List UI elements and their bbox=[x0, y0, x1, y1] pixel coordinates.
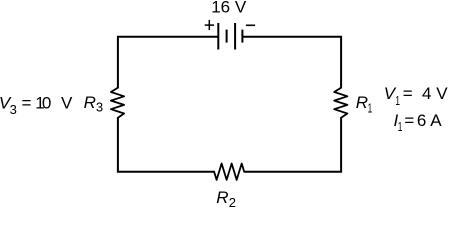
svg-text:16 V: 16 V bbox=[211, 0, 247, 17]
